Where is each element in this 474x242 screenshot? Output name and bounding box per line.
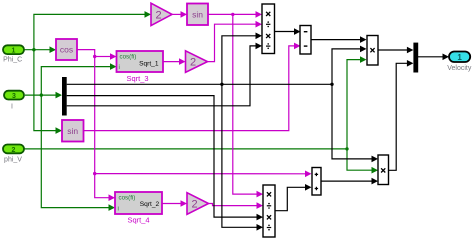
inport 1 Phi_C xyxy=(3,45,24,54)
demux (black bar) xyxy=(62,77,67,116)
node junction out1-b xyxy=(330,83,333,86)
node junction Phi_C xyxy=(32,48,35,51)
wire demux out3 to product U3 port4 xyxy=(67,46,256,106)
wire product U4 out to sum U6 port2 xyxy=(275,187,306,210)
wire product U7 out to mux xyxy=(378,49,407,51)
svg-text:i: i xyxy=(118,205,119,212)
svg-text:i: i xyxy=(119,64,120,71)
svg-text:Sqrt_3: Sqrt_3 xyxy=(126,74,148,83)
product U8 (x, 3 inputs) xyxy=(378,155,389,185)
svg-text:2: 2 xyxy=(12,147,16,154)
sum U6 (plus plus) xyxy=(312,168,321,196)
arrowhead into mux port1 xyxy=(407,47,414,54)
arrowhead into product U8 port3 xyxy=(372,178,379,185)
gain Gain2b (middle, value 2) xyxy=(186,51,208,73)
wire product U8 out up to mux port2 xyxy=(389,63,408,170)
wire sin1 branch down to product U4 port1 xyxy=(233,14,257,194)
arrowhead into mux port2 xyxy=(407,60,414,67)
svg-text:3: 3 xyxy=(12,93,16,100)
wire cos long branch to sum U6 port1 xyxy=(95,173,306,175)
arrowhead into sum U5 port2 xyxy=(294,43,301,50)
arrowhead into Sqrt_3 port cos(fi) xyxy=(110,53,117,60)
arrowhead into sum U6 port2 xyxy=(305,184,312,191)
svg-text:Sqrt_1: Sqrt_1 xyxy=(139,60,159,67)
svg-text:1: 1 xyxy=(457,53,462,62)
arrowhead into Sqrt_4 port i xyxy=(109,204,116,211)
product U4 (bottom, x / x /) xyxy=(263,185,275,237)
arrowhead into product U3 port4 xyxy=(256,43,263,50)
arrowhead into product U8 port1 xyxy=(372,156,379,163)
wire sin1 to product U3 port1 xyxy=(208,13,256,15)
wire sum U6 out to product U8 port3 xyxy=(321,180,372,182)
gain Gain2c (bottom, value 2) xyxy=(187,193,209,215)
arrowhead into sin1 xyxy=(181,11,188,18)
wire Gain2b to product U3 port2 xyxy=(208,24,257,61)
outport 1 Velocity xyxy=(449,52,470,63)
wire sum U5 out to product U7 port1 xyxy=(311,39,361,41)
arrowhead into product U7 port1 xyxy=(360,36,367,43)
arrowhead into cos xyxy=(50,46,57,53)
svg-text:cos(fi): cos(fi) xyxy=(119,195,136,202)
wire demux out1 xyxy=(67,83,332,85)
svg-text:Velocity: Velocity xyxy=(447,65,472,72)
wire out1 branch up to product U3 port3 xyxy=(222,36,256,85)
sin block upper (sin1) xyxy=(187,4,208,26)
svg-text:cos(fi): cos(fi) xyxy=(120,53,137,60)
wire I branch down to Sqrt_4 port i xyxy=(41,95,109,208)
svg-text:2: 2 xyxy=(155,9,161,21)
svg-text:I: I xyxy=(11,104,13,111)
mux (black bar) xyxy=(413,43,418,73)
subsystem Sqrt_4 xyxy=(115,192,162,214)
wire Phi_C branch up to Gain2a xyxy=(34,14,145,49)
svg-text:Phi_C: Phi_C xyxy=(3,57,22,64)
svg-text:1: 1 xyxy=(12,48,16,55)
wire cos branch to Sqrt_3 port1 xyxy=(95,56,111,58)
svg-text:cos: cos xyxy=(60,45,73,55)
wire I to demux xyxy=(25,94,58,96)
wire phi_V branch down to product U8 port2 xyxy=(347,149,372,170)
wire out1 to product U8 port1 xyxy=(332,84,372,159)
node junction out1-a xyxy=(220,83,223,86)
arrowhead into product U4 port1 xyxy=(257,191,264,198)
arrowhead into product U3 port1 xyxy=(256,11,263,18)
subsystem Sqrt_3 xyxy=(117,51,164,72)
wire phi_V to junction xyxy=(24,148,347,150)
arrowhead into product U4 port3 xyxy=(257,214,264,221)
cos block xyxy=(56,39,77,60)
node junction phi_V xyxy=(345,147,348,150)
arrowhead into product U3 port3 xyxy=(256,33,263,40)
arrowhead into Sqrt_4 port cos(fi) xyxy=(109,194,116,201)
arrowhead into gain G3 xyxy=(181,200,188,207)
wire cos out down xyxy=(77,50,109,198)
inport 2 phi_V xyxy=(3,145,24,154)
node junction cos-Sqrt3 xyxy=(93,55,96,58)
svg-text:2: 2 xyxy=(190,57,196,69)
wire mux out to Velocity xyxy=(418,56,443,58)
arrowhead into gain G2 xyxy=(179,58,186,65)
arrowhead into product U8 port2 xyxy=(372,167,379,174)
arrowhead into outport Velocity xyxy=(443,54,450,61)
svg-text:Sqrt_4: Sqrt_4 xyxy=(127,216,149,225)
wire product U3 out to sum U5 xyxy=(275,31,295,33)
inport 3 I xyxy=(4,91,24,100)
sum U5 (minus minus) xyxy=(300,26,311,55)
arrowhead into product U4 port4 xyxy=(257,224,264,231)
svg-text:Sqrt_2: Sqrt_2 xyxy=(140,201,160,208)
wire out1 branch down to product U4 port4 xyxy=(222,84,257,227)
svg-text:sin: sin xyxy=(192,10,203,20)
node junction I xyxy=(40,93,43,96)
wire Sqrt_3 out to Gain2b xyxy=(163,61,180,63)
wire Gain2c to product U4 port2 xyxy=(209,204,258,206)
wire out1 to product U7 port2 xyxy=(332,49,361,84)
arrowhead into gain G1 xyxy=(145,11,152,18)
wire demux out2 to product U4 port3 xyxy=(67,96,257,218)
arrowhead into sum U5 port1 xyxy=(294,28,301,35)
arrowhead into demux xyxy=(56,92,63,99)
arrowhead into product U4 port2 xyxy=(257,202,264,209)
arrowhead into sum U6 port1 xyxy=(305,171,312,178)
product U7 (x, 3 inputs) xyxy=(367,36,378,66)
svg-text:phi_V: phi_V xyxy=(4,157,22,164)
wire I branch up to Sqrt_3 port i xyxy=(41,67,110,96)
arrowhead into Sqrt_3 port i xyxy=(110,63,117,70)
wire phi_V branch up to product U7 port3 xyxy=(347,60,361,149)
arrowhead into product U3 port2 xyxy=(256,21,263,28)
wire Phi_C to cos xyxy=(24,49,50,51)
arrowhead into product U7 port2 xyxy=(360,46,367,53)
svg-text:sin: sin xyxy=(67,126,78,136)
wire Sqrt_4 out to Gain2c xyxy=(162,203,181,205)
wire Gain2a to sin1 xyxy=(172,13,181,15)
gain Gain2a (top, value 2) xyxy=(151,3,172,25)
svg-text:2: 2 xyxy=(191,199,197,211)
wire Phi_C branch down to sin2 xyxy=(34,50,57,131)
arrowhead into product U7 port3 xyxy=(360,56,367,63)
node junction cos-sum xyxy=(93,172,96,175)
arrowhead into sin2 xyxy=(56,127,63,134)
node junction sin1 xyxy=(231,13,234,16)
product U3 (top, x / x /) xyxy=(262,4,275,54)
wire sin2 out to sum U5 port2 xyxy=(84,46,295,131)
sin block lower (sin2) xyxy=(62,120,84,142)
